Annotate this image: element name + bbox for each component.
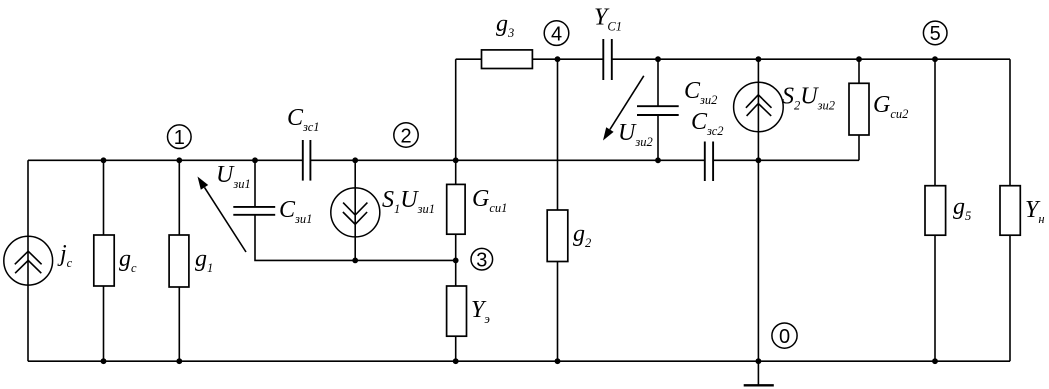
- controlled source S2 U_zi2: [734, 82, 784, 132]
- wire g2 branch bottom: [557, 262, 559, 362]
- junction main rail / C_zi2: [655, 157, 661, 163]
- junction bottom rail / g2: [555, 358, 561, 364]
- node 2: [394, 123, 418, 148]
- svg-text:S2Uзи2: S2Uзи2: [782, 84, 835, 113]
- wire g5 branch bottom: [934, 235, 936, 361]
- wire top rail segment 2: [532, 58, 602, 60]
- svg-text:YC1: YC1: [594, 5, 622, 34]
- svg-text:2: 2: [400, 125, 411, 147]
- svg-text:5: 5: [930, 23, 941, 45]
- junction bottom rail / ground: [756, 358, 762, 364]
- resistor g_2: [547, 210, 568, 262]
- wire Gcu1 branch vertical (top rail to resistor): [455, 59, 457, 184]
- wire g1 branch top: [178, 160, 180, 235]
- controlled source S1 U_zi1: [331, 188, 380, 237]
- svg-text:g1: g1: [195, 246, 213, 275]
- svg-text:Gси2: Gси2: [873, 92, 908, 121]
- svg-text:Cзс1: Cзс1: [287, 105, 320, 134]
- junction main rail / S2: [756, 157, 762, 163]
- resistor g_1: [169, 235, 189, 287]
- svg-text:g2: g2: [573, 221, 591, 250]
- wire C_zi2 branch bottom: [657, 115, 659, 160]
- wire g2 branch top (crosses main rail): [557, 59, 559, 210]
- node 4: [544, 21, 569, 46]
- svg-text:S1Uзи1: S1Uзи1: [382, 187, 435, 216]
- svg-text:4: 4: [551, 23, 562, 45]
- svg-text:g3: g3: [496, 11, 514, 40]
- wire top rail segment 3: [612, 58, 1010, 60]
- junction main rail / gc: [101, 157, 107, 163]
- junction bottom rail / g1: [176, 358, 182, 364]
- capacitor C_zi1: [233, 207, 275, 215]
- junction top rail / S2: [756, 56, 762, 62]
- node 5: [923, 21, 947, 45]
- wire source rail (C_zi1 / S1 bottom to node 3): [255, 215, 456, 261]
- resistor G_cu2: [849, 83, 869, 135]
- wire g1 branch bottom: [178, 287, 180, 361]
- wire gc branch top: [103, 160, 105, 235]
- svg-text:3: 3: [476, 250, 487, 272]
- node 3: [471, 248, 493, 271]
- node 1: [168, 125, 192, 149]
- wire Gcu2 branch bottom: [858, 135, 860, 160]
- junction bottom rail / g5: [932, 358, 938, 364]
- junction node 3: [453, 258, 459, 264]
- arrow U_zi1: [198, 177, 247, 253]
- svg-text:Cзи2: Cзи2: [684, 78, 717, 107]
- junction top rail / Gcu2: [856, 56, 862, 62]
- junction bottom rail / gc: [101, 358, 107, 364]
- svg-text:jc: jc: [57, 241, 73, 270]
- junction main rail / g1 (node 1): [176, 157, 182, 163]
- junction main rail / C_zi1: [252, 157, 258, 163]
- svg-text:Uзи1: Uзи1: [216, 162, 251, 191]
- resistor g_c: [94, 235, 114, 286]
- capacitor C_zi2: [637, 106, 679, 115]
- wire left vertical jc branch: [27, 160, 29, 361]
- wire g5 branch top: [934, 59, 936, 186]
- wire bottom rail: [28, 360, 1010, 362]
- junction main rail / S1: [352, 157, 358, 163]
- junction top rail / C_zi2: [655, 56, 661, 62]
- junction top rail / node 4: [555, 56, 561, 62]
- svg-text:gc: gc: [119, 246, 137, 275]
- junction top rail / node 5: [932, 56, 938, 62]
- wire S1 branch (passes through source circle): [354, 160, 356, 260]
- svg-text:Yн: Yн: [1025, 197, 1045, 226]
- svg-text:Uзи2: Uзи2: [618, 120, 653, 149]
- node 0: [772, 323, 797, 348]
- svg-text:Cзс2: Cзс2: [691, 109, 724, 138]
- wire top rail segment 1: [456, 58, 482, 60]
- wire C_zi2 branch top: [657, 59, 659, 106]
- svg-text:0: 0: [779, 326, 790, 348]
- svg-text:1: 1: [174, 127, 185, 149]
- capacitor C_zs2 (series in main rail): [705, 142, 713, 182]
- wire Ye bottom: [455, 336, 457, 361]
- wire Yn branch top: [1009, 59, 1011, 186]
- junction source rail / S1: [352, 258, 358, 264]
- junction bottom rail / Ye: [453, 358, 459, 364]
- arrow U_zi2: [603, 76, 644, 141]
- wire gc branch bottom: [103, 286, 105, 361]
- resistor g_5: [925, 186, 946, 236]
- wire main rail left segment: [28, 159, 302, 161]
- capacitor C_zs1 (series in main rail): [303, 140, 311, 181]
- svg-text:Cзи1: Cзи1: [279, 197, 312, 226]
- resistor Y_e: [447, 286, 467, 336]
- wire S2 branch (passes through source circle, down to ground): [757, 59, 759, 361]
- wire main rail right segment: [714, 159, 859, 161]
- resistor Y_n: [1000, 186, 1020, 236]
- junction main rail / Gcu1: [453, 157, 459, 163]
- ground: [744, 361, 774, 385]
- wire C_zi1 branch top: [254, 160, 256, 207]
- current source jc: [4, 236, 53, 285]
- svg-text:Gси1: Gси1: [472, 186, 507, 215]
- resistor g_3 (horizontal, in top rail): [482, 50, 533, 69]
- wire main rail middle segment: [311, 159, 704, 161]
- svg-text:Yэ: Yэ: [471, 297, 490, 326]
- wire Gcu1 to node3: [455, 234, 457, 286]
- wire Gcu2 branch top: [858, 59, 860, 83]
- svg-text:g5: g5: [953, 194, 971, 223]
- resistor G_cu1: [447, 184, 465, 234]
- capacitor Y_C1 (series in top rail): [603, 39, 612, 80]
- wire Yn branch bottom: [1009, 235, 1011, 361]
